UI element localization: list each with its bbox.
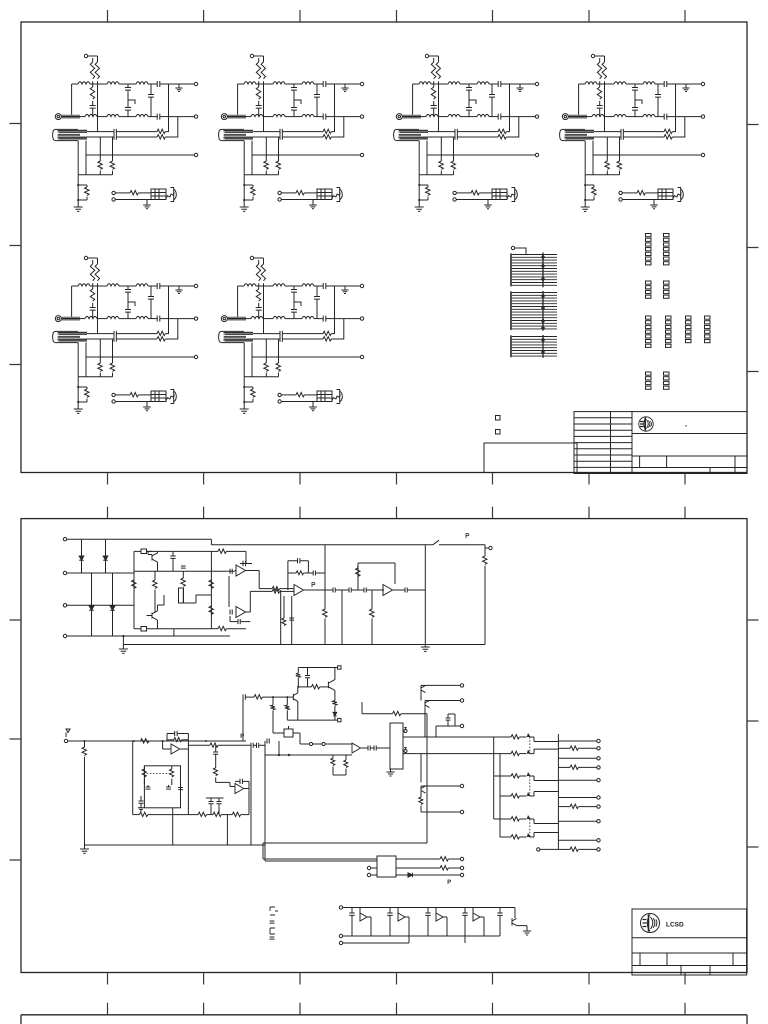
upper transistor T7 — [421, 684, 434, 686]
wire — [436, 714, 460, 737]
resistor R33 main — [139, 740, 142, 742]
capacitor C31b — [168, 785, 170, 787]
RC array top rail — [343, 907, 515, 909]
wire harness stack B — [511, 291, 557, 331]
terminal OUT5 square — [338, 718, 341, 721]
resistor RN6 — [511, 835, 519, 839]
output row 9 — [558, 839, 596, 841]
resistor network header group B — [646, 281, 670, 298]
capacitor C14 input — [230, 609, 232, 614]
terminal O4 — [460, 784, 463, 787]
node row wire — [298, 686, 311, 688]
label P — [312, 583, 315, 588]
wire to loop — [408, 589, 426, 591]
wire — [184, 595, 212, 603]
terminal O5 — [460, 810, 463, 813]
wire — [67, 604, 134, 606]
transistor Q2 — [147, 595, 165, 629]
capacitor C39 — [447, 714, 449, 718]
diode D5 — [333, 712, 337, 716]
diode D3 — [91, 573, 93, 606]
RC cell 1 buffer — [359, 908, 361, 918]
wire main — [68, 740, 246, 742]
series capacitor C33a — [251, 743, 253, 748]
RC bottom rail 2 — [343, 942, 409, 944]
wire — [67, 538, 212, 540]
feedback capacitor C30 — [167, 734, 175, 742]
wire — [421, 754, 460, 786]
pin flags — [404, 727, 407, 750]
loop bottom rail — [123, 644, 485, 646]
left bus B — [500, 754, 511, 837]
resistor R31 — [143, 766, 145, 769]
resistor R39 — [286, 697, 288, 705]
output row 5 — [558, 779, 596, 781]
junction dot — [297, 686, 299, 688]
wire drop — [341, 590, 343, 645]
left rails — [281, 590, 292, 645]
wire lower — [123, 629, 173, 649]
aux connector box — [377, 856, 396, 877]
mounting pad square a — [496, 416, 501, 421]
terminal O1 — [460, 684, 463, 687]
label P3 — [241, 734, 244, 738]
resistor R30 — [84, 741, 86, 747]
capacitor C31c — [178, 788, 183, 790]
source flag — [66, 729, 70, 737]
base resistor box Q2 — [141, 627, 147, 632]
RC cell 3 buffer — [435, 908, 437, 918]
wire — [134, 628, 211, 630]
resistor R17a — [272, 586, 280, 590]
coupler arrow RN5 — [527, 815, 531, 819]
wire — [352, 589, 364, 591]
RC bottom rail 1 — [343, 935, 500, 937]
lower transistor T9 — [421, 785, 434, 787]
junction dots base row — [272, 696, 274, 698]
terminal TO9 — [597, 839, 600, 842]
terminal DA1 out — [460, 873, 463, 876]
sheet 1 top edge ticks — [108, 10, 686, 22]
right bus — [557, 734, 559, 849]
resistor RN5 — [511, 817, 519, 821]
series capacitor C33b — [254, 744, 257, 746]
junction — [162, 740, 164, 742]
output row 3 — [558, 757, 596, 759]
feedback resistor R18 — [288, 572, 296, 574]
diff pair box left edge — [133, 551, 135, 628]
opamp U5 output — [244, 781, 249, 814]
RC end transistor — [514, 908, 516, 919]
transistor Q5 — [288, 687, 298, 720]
ground RC — [517, 926, 528, 931]
junction dots row — [278, 754, 280, 756]
resistor RN2 — [511, 751, 519, 755]
output row 6 — [558, 797, 596, 799]
bottom rail resistor RC — [213, 812, 221, 816]
output row 7 — [558, 806, 570, 808]
opamp U3 — [383, 585, 393, 596]
vertical rails — [227, 741, 265, 861]
capacitor C18 — [349, 587, 351, 592]
wire row2 — [265, 741, 352, 755]
title block outline — [632, 909, 747, 975]
resistor RN4 — [511, 794, 519, 798]
node circle b — [322, 742, 325, 745]
capacitor C34 — [243, 694, 245, 699]
resistor RA2 — [396, 867, 440, 869]
wire — [300, 733, 322, 744]
row dividers — [632, 938, 747, 966]
sheet 1 bottom edge ticks — [108, 473, 686, 485]
wire double bottom — [250, 590, 272, 592]
riser right — [263, 714, 427, 859]
stage1 left rail — [132, 741, 134, 815]
diode DA1 — [396, 874, 408, 876]
stage2 chain resistor R36 — [215, 755, 217, 768]
wire — [485, 545, 489, 548]
stage2 wire — [188, 744, 209, 746]
resistor RN3 — [511, 774, 519, 778]
capacitor C14 loop — [230, 616, 238, 622]
wire — [325, 743, 352, 745]
left bus A — [494, 737, 511, 819]
sheet 1 border frame — [21, 22, 747, 473]
output row 2 — [558, 747, 570, 749]
resistor R37 — [246, 696, 254, 698]
resistor R14 — [210, 605, 212, 606]
terminal TO10 — [597, 848, 600, 851]
stepped wire RN1 — [530, 737, 559, 742]
capacitor C17 — [333, 587, 335, 592]
stage2 resistor R35 — [210, 743, 218, 747]
opamp U5 — [235, 783, 244, 793]
base resistor box Q1 — [141, 549, 147, 554]
capacitor C35 — [307, 668, 309, 676]
terminal A1 — [367, 866, 370, 869]
terminal RC in — [339, 906, 342, 909]
filter channel block 1 — [53, 54, 198, 211]
resistor R20 drop — [324, 545, 326, 609]
RC cell 5 cap — [499, 908, 501, 914]
resistor R22 — [484, 548, 486, 556]
opamp U5 input wire — [216, 782, 235, 786]
bottom wire — [287, 719, 335, 721]
diode D1 — [81, 539, 83, 556]
resistor R10 — [133, 579, 135, 582]
wire out row b — [403, 753, 500, 755]
resistor R40b — [311, 685, 319, 689]
resistor RA1 — [396, 858, 440, 860]
resistor R42b — [333, 701, 337, 706]
resistor R15 top — [211, 550, 218, 552]
capacitor C32 bottom — [140, 796, 142, 801]
terminal O3 — [460, 724, 463, 727]
wire out row a — [403, 736, 494, 738]
coupler arrow RN1 — [527, 733, 531, 737]
capacitor C31a — [147, 785, 149, 787]
sheet 2 bottom edge ticks — [108, 973, 686, 985]
output terminal P1 — [489, 546, 492, 549]
notes box — [484, 443, 577, 473]
resistor R41 — [345, 755, 347, 760]
capacitor C37 — [361, 747, 368, 749]
input terminal IN4 — [63, 634, 66, 637]
resistor R40 — [332, 755, 334, 758]
resistor R21 drop — [371, 590, 373, 609]
opamp U4 input — [163, 741, 171, 749]
sheet 2 border frame — [21, 519, 747, 973]
opamp U1B — [236, 607, 246, 618]
feedback capacitor C13 — [240, 551, 252, 563]
output row 8 — [558, 820, 596, 822]
filter channel block 2 — [219, 54, 364, 211]
opamp U5 feedback cap — [235, 780, 240, 782]
wire — [421, 685, 460, 700]
feedback resistor R34 — [167, 739, 174, 741]
bottom rail — [85, 844, 266, 846]
top rail — [298, 667, 335, 669]
feedback cap C15 — [288, 561, 298, 590]
terminal TO1 — [597, 739, 600, 742]
resistor R41b chain — [297, 668, 299, 674]
wire — [67, 572, 134, 574]
output row 10 — [558, 848, 570, 850]
company logo sheet2 — [641, 914, 660, 933]
terminal O2 — [460, 699, 463, 702]
dashed couple 1 — [529, 737, 531, 837]
wire — [425, 701, 460, 738]
harness stack input terminal — [511, 246, 514, 249]
transistor Q1 — [147, 551, 158, 571]
wire harness stack A — [511, 253, 557, 288]
diode D2 — [105, 539, 107, 556]
ground loop — [424, 645, 426, 647]
terminal TO4 — [597, 766, 600, 769]
terminal TO8 — [597, 820, 600, 823]
terminal RC b1 — [339, 934, 342, 937]
resistor R12 — [182, 571, 184, 578]
terminal RA2 out — [460, 866, 463, 869]
trimmer box — [179, 588, 184, 603]
terminal TO2 — [597, 747, 600, 750]
RC cell 2 cap — [389, 908, 391, 914]
diode D4 — [112, 573, 114, 606]
stepped wire RN6 — [530, 833, 559, 838]
box pin circles — [404, 730, 407, 733]
RC cell 4 buffer — [472, 908, 474, 918]
wire mid row — [134, 570, 235, 572]
doc number dot — [685, 425, 687, 427]
resistor R13 — [210, 579, 212, 582]
terminal A2 — [367, 873, 370, 876]
resistor R17b — [272, 589, 280, 593]
ground small — [138, 808, 144, 811]
terminal TO3 — [597, 757, 600, 760]
box drop — [172, 808, 174, 845]
input terminal IN2 — [63, 571, 66, 574]
wire — [336, 589, 349, 591]
bottom rail resistor RB — [198, 812, 206, 816]
stepped wire RN5 — [530, 819, 559, 824]
opamp U1A — [235, 570, 236, 572]
coupler arrow RN3 — [527, 772, 531, 776]
sheet 2 right edge ticks — [747, 620, 759, 847]
driver box — [390, 723, 403, 769]
mounting pad square b — [496, 430, 501, 435]
RC cell 1 cap — [351, 908, 353, 914]
ground under box — [390, 769, 392, 772]
title block sheet1 revision table — [574, 412, 632, 474]
resistor network header group C — [646, 316, 711, 347]
opamp U4 output — [180, 748, 189, 750]
output row 1 — [558, 740, 596, 742]
terminal TO7 — [597, 805, 600, 808]
capacitor C11 — [181, 566, 186, 568]
ground main — [84, 845, 86, 849]
RC cell 3 cap — [427, 908, 429, 914]
wire — [367, 589, 383, 591]
stepped wire RN4 — [530, 792, 559, 797]
node circle — [309, 742, 312, 745]
opamp U6 — [352, 743, 361, 753]
wire — [515, 248, 526, 255]
label P — [466, 534, 469, 539]
transistor Q6 — [328, 668, 335, 701]
wire — [304, 589, 334, 591]
junction dot — [382, 589, 384, 591]
resistor R38 — [272, 697, 274, 705]
capacitor C21 — [289, 618, 294, 620]
resistor RN1 — [511, 735, 519, 739]
terminal TO6 — [597, 796, 600, 799]
sheet 3 top edge ticks — [108, 1003, 686, 1015]
feedback resistor R19 — [357, 566, 359, 568]
resistor network header group A — [646, 234, 670, 265]
filter channel block 4 — [560, 54, 705, 211]
coupler arrow RN6 — [527, 833, 531, 837]
pot box — [284, 729, 293, 737]
stage2 chain capacitor — [215, 745, 217, 752]
bottom rail resistor RD — [232, 812, 240, 816]
ground left — [119, 649, 128, 653]
stage1 inner box — [144, 766, 180, 808]
wire — [540, 848, 558, 850]
capacitor C36 — [267, 738, 269, 743]
junction dots — [84, 740, 86, 742]
cluster capacitor Cb — [218, 798, 220, 802]
filter channel block 3 — [394, 54, 539, 211]
riser to cap row — [242, 697, 244, 741]
RC cell 4 cap — [464, 908, 466, 914]
feedback rect U3 — [358, 563, 395, 590]
wire — [421, 811, 460, 813]
resistor R23 — [283, 596, 285, 618]
wire harness stack C — [511, 335, 557, 358]
sheet 3 top border — [21, 1015, 747, 1024]
cell dividers — [640, 953, 733, 975]
spare gate group — [270, 907, 278, 915]
stepped wire RN3 — [530, 776, 559, 781]
sheet 1 left edge ticks — [10, 124, 22, 365]
sheet 2 top edge ticks — [108, 507, 686, 519]
company logo sheet1 — [639, 417, 653, 431]
input terminal IN1 — [63, 538, 66, 541]
wire — [265, 860, 377, 862]
label P2 — [448, 880, 451, 884]
top wire long — [211, 539, 433, 545]
resistor R42 — [420, 793, 422, 797]
input terminal IN3 — [63, 604, 66, 607]
upper transistor T8 — [425, 700, 437, 702]
bottom rail resistor RA — [133, 814, 140, 816]
caps cluster top wire — [206, 797, 224, 799]
filter channel block 5 — [53, 256, 198, 413]
loop left edge — [424, 545, 426, 645]
wire — [67, 635, 230, 637]
capacitor C12 — [230, 569, 232, 574]
opamp U4 — [171, 744, 180, 754]
capacitor C19 — [364, 587, 366, 592]
svg-text:LCSD: LCSD — [666, 922, 684, 929]
wire — [134, 550, 211, 552]
capacitor C38 — [371, 747, 374, 749]
capacitor C10 — [172, 551, 174, 556]
coupler arrow RN2 — [527, 750, 531, 754]
wire double top — [259, 588, 272, 590]
opamp outputs junction — [229, 571, 259, 613]
mid wire w resistor — [362, 702, 393, 714]
cluster capacitor Ca — [210, 798, 212, 802]
resistor R32 — [171, 766, 173, 769]
sheet 2 left edge ticks — [10, 620, 22, 860]
resistor R11 — [154, 571, 156, 580]
filter channel block 6 — [219, 256, 364, 413]
long vertical — [210, 551, 212, 628]
output row 4 — [558, 766, 570, 768]
junction dot — [122, 635, 124, 637]
capacitor C20 — [405, 587, 407, 592]
coupler arrow RN4 — [527, 792, 531, 796]
sheet 1 right edge ticks — [747, 125, 759, 372]
trimmer dashed link — [147, 773, 171, 775]
wire — [393, 589, 406, 591]
title block sheet1 main — [632, 412, 747, 474]
terminal TO5 — [597, 779, 600, 782]
switch mark — [433, 540, 485, 545]
stepped wire RN2 — [530, 749, 559, 754]
terminal RA1 out — [460, 857, 463, 860]
series capacitor C16 — [308, 572, 313, 574]
input terminal V1 — [64, 739, 67, 742]
bottom input terminal — [537, 848, 540, 851]
resistor network header group D — [646, 372, 670, 389]
resistor R16 bottom — [211, 628, 218, 630]
terminal VCC square — [338, 666, 341, 669]
RC cell 2 buffer — [397, 908, 399, 918]
terminal RC b2 — [339, 941, 342, 944]
opamp U2 — [294, 585, 304, 596]
